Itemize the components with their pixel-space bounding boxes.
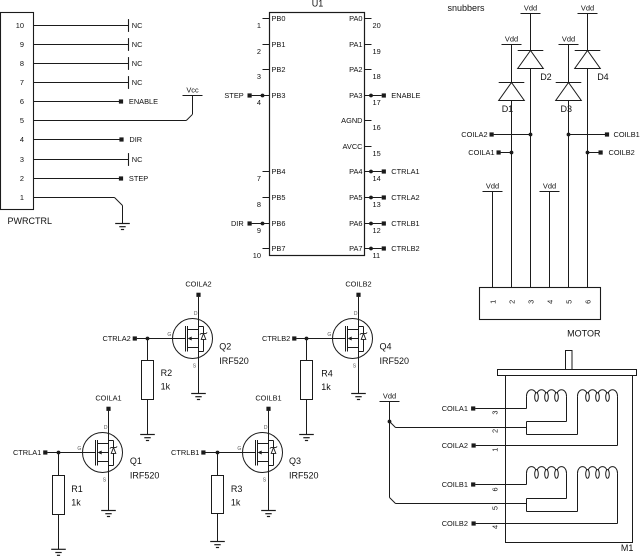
U1 pin 10 (PB7): [263, 248, 270, 250]
svg-text:COILB1: COILB1: [255, 393, 281, 402]
svg-text:9: 9: [20, 40, 24, 49]
svg-text:CTRLA1: CTRLA1: [13, 448, 41, 457]
U1 pin 15 (AVCC): [365, 146, 372, 148]
svg-text:10: 10: [253, 251, 261, 260]
svg-text:11: 11: [373, 251, 381, 260]
svg-text:COILA1: COILA1: [442, 404, 468, 413]
svg-text:Vdd: Vdd: [524, 4, 537, 13]
svg-text:8: 8: [257, 200, 261, 209]
U1 pin 4 (PB3): [263, 95, 270, 97]
U1 pin 18 (PA2): [365, 69, 372, 71]
svg-text:18: 18: [373, 72, 381, 81]
svg-text:COILB2: COILB2: [345, 279, 371, 288]
U1 pin 19 (PA1): [365, 44, 372, 46]
wire pin 6 to ENABLE: [34, 101, 120, 103]
svg-text:20: 20: [373, 21, 381, 30]
wire CTRLB1 to gate of Q3: [205, 452, 255, 454]
wire D3 anode to motor pin 5: [568, 101, 570, 288]
svg-text:PB0: PB0: [272, 14, 286, 23]
node ENABLE flag: [119, 99, 123, 103]
svg-text:1: 1: [20, 193, 24, 202]
inductor coil B second half: [577, 473, 579, 511]
transistor Q3: [237, 425, 282, 483]
svg-text:COILB2: COILB2: [609, 148, 635, 157]
svg-text:PA5: PA5: [349, 193, 362, 202]
svg-text:15: 15: [373, 149, 381, 158]
ground at source of Q2: [191, 393, 206, 395]
NC flag pin 7: [128, 76, 130, 89]
U1 pin 7 (PB4): [263, 171, 270, 173]
svg-text:3: 3: [257, 72, 261, 81]
svg-text:1: 1: [489, 300, 498, 304]
svg-text:ENABLE: ENABLE: [129, 97, 158, 106]
wire COILA2 to D2 column: [494, 134, 531, 136]
U1 pin 11 (PA7): [365, 248, 372, 250]
resistor R2: [147, 339, 149, 361]
ground at PWRCTRL pin 1: [115, 223, 130, 225]
wire COILA1 into motor: [475, 408, 526, 410]
svg-text:COILA1: COILA1: [468, 148, 494, 157]
wire D4 anode to motor pin 6: [587, 69, 589, 288]
svg-text:R4: R4: [321, 369, 333, 379]
wire COILA2 to drain of Q2: [198, 297, 200, 330]
node STEP flag: [119, 176, 123, 180]
svg-text:R3: R3: [231, 484, 243, 494]
svg-text:AGND: AGND: [341, 116, 362, 125]
NC flag pin 3: [128, 153, 130, 166]
svg-text:M1: M1: [621, 543, 634, 553]
svg-text:5: 5: [565, 300, 574, 304]
wire pin 7 to NC: [34, 82, 129, 84]
junction at CTRLB2 / R top: [305, 337, 309, 341]
wire coil B2 to COILB2: [617, 473, 619, 523]
inductor coil A first half: [526, 396, 528, 408]
NC flag pin 9: [128, 38, 130, 51]
svg-text:3: 3: [527, 300, 536, 304]
connector PWRCTRL box: [1, 13, 34, 210]
svg-text:PA6: PA6: [349, 219, 362, 228]
svg-text:CTRLB2: CTRLB2: [262, 334, 290, 343]
svg-text:Vdd: Vdd: [543, 182, 556, 191]
svg-text:DIR: DIR: [129, 135, 142, 144]
svg-text:Vdd: Vdd: [581, 4, 594, 13]
supply Vcc: [183, 95, 203, 97]
svg-text:ENABLE: ENABLE: [391, 91, 420, 100]
svg-text:snubbers: snubbers: [448, 3, 486, 13]
svg-text:PB3: PB3: [272, 91, 286, 100]
svg-text:4: 4: [490, 525, 499, 529]
transistor Q4: [327, 311, 372, 369]
op-amp U1 body: [270, 13, 365, 256]
svg-text:NC: NC: [132, 21, 143, 30]
svg-text:Q2: Q2: [219, 342, 231, 352]
svg-text:5: 5: [490, 506, 499, 510]
svg-text:CTRLA2: CTRLA2: [391, 193, 419, 202]
node CTRLB2 at U1: [369, 247, 373, 251]
wire pin 2 to STEP: [34, 178, 120, 180]
wire Vdd to winding A center tap: [390, 422, 396, 428]
svg-text:Q1: Q1: [130, 456, 142, 466]
svg-text:CTRLA2: CTRLA2: [102, 334, 130, 343]
connector MOTOR box: [480, 288, 601, 320]
svg-text:19: 19: [373, 47, 381, 56]
resistor R1: [58, 453, 60, 476]
U1 pin 3 (PB2): [263, 69, 270, 71]
supply Vdd to motor pin 1: [483, 191, 503, 193]
svg-text:D2: D2: [540, 72, 552, 82]
svg-text:D4: D4: [597, 72, 609, 82]
resistor R3: [217, 453, 219, 476]
transistor Q2: [167, 311, 212, 369]
U1 pin 12 (PA6): [365, 223, 372, 225]
svg-text:Vdd: Vdd: [486, 182, 499, 191]
junction at CTRLB1 / R top: [216, 451, 220, 455]
U1 pin 20 (PA0): [365, 18, 372, 20]
svg-text:IRF520: IRF520: [289, 471, 319, 481]
svg-text:PA0: PA0: [349, 14, 362, 23]
svg-text:DIR: DIR: [231, 219, 244, 228]
wire COILB1 from D3 column: [569, 134, 606, 136]
motor M1 flange: [498, 370, 637, 376]
ground at source of Q3: [261, 510, 276, 512]
wire pin 10 to NC: [34, 25, 129, 27]
node COILB2 flag at motor: [472, 521, 476, 525]
wire CTRLB2 to gate of Q4: [296, 338, 345, 340]
node COILB2 flag at snubbers: [586, 151, 590, 155]
svg-text:1k: 1k: [71, 498, 81, 508]
wire COILB2 from D4 column: [588, 152, 599, 154]
svg-text:2: 2: [508, 300, 517, 304]
ground below R2: [140, 434, 155, 436]
wire source of Q2 to ground: [198, 359, 200, 394]
svg-text:1: 1: [257, 21, 261, 30]
svg-text:13: 13: [373, 200, 381, 209]
svg-text:PB6: PB6: [272, 219, 286, 228]
wire coil A1 to center tap: [566, 396, 568, 421]
U1 pin 9 (PB6): [263, 223, 270, 225]
svg-text:AVCC: AVCC: [343, 142, 364, 151]
svg-text:12: 12: [373, 226, 381, 235]
svg-text:COILA1: COILA1: [95, 393, 121, 402]
svg-text:COILB2: COILB2: [442, 519, 468, 528]
junction at CTRLA2 / R top: [146, 337, 150, 341]
svg-text:2: 2: [20, 174, 24, 183]
node DIR flag: [119, 137, 123, 141]
junction at CTRLA1 / R top: [57, 451, 61, 455]
svg-text:17: 17: [373, 98, 381, 107]
svg-text:Vdd: Vdd: [505, 35, 518, 44]
node CTRLA1 at U1: [369, 170, 373, 174]
svg-text:6: 6: [20, 97, 24, 106]
U1 pin 14 (PA4): [365, 171, 372, 173]
svg-text:Vdd: Vdd: [562, 35, 575, 44]
wire D2 anode to motor pin 3: [530, 69, 532, 288]
svg-text:COILA2: COILA2: [461, 130, 487, 139]
wire COILA1 to drain of Q1: [108, 411, 110, 444]
svg-text:CTRLA1: CTRLA1: [391, 167, 419, 176]
svg-text:6: 6: [584, 300, 593, 304]
wire pin 9 to NC: [34, 44, 129, 46]
svg-text:4: 4: [20, 135, 24, 144]
svg-text:14: 14: [373, 174, 381, 183]
U1 pin 16 (AGND): [365, 120, 372, 122]
wire pin 3 to NC: [34, 159, 129, 161]
wire Vdd to winding B center tap: [389, 422, 391, 498]
svg-text:Vcc: Vcc: [186, 86, 199, 95]
node COILA2 flag at motor: [472, 443, 476, 447]
wire pin 5 to Vcc: [34, 120, 187, 122]
wire COILB2 to drain of Q4: [358, 297, 360, 330]
svg-text:9: 9: [257, 226, 261, 235]
U1 pin 8 (PB5): [263, 197, 270, 199]
svg-text:PB7: PB7: [272, 244, 286, 253]
svg-text:STEP: STEP: [129, 174, 148, 183]
svg-text:16: 16: [373, 123, 381, 132]
svg-text:PA2: PA2: [349, 65, 362, 74]
wire pin 4 to DIR: [34, 139, 120, 141]
inductor coil A second half: [577, 396, 579, 434]
transistor Q1: [77, 425, 122, 483]
svg-text:2: 2: [490, 429, 499, 433]
svg-text:1k: 1k: [161, 382, 171, 392]
ground at source of Q4: [351, 393, 366, 395]
wire coil B1 to center tap: [566, 473, 568, 498]
supply Vdd above D1: [502, 44, 522, 46]
svg-text:7: 7: [257, 174, 261, 183]
ground at source of Q1: [101, 510, 116, 512]
wire CTRLA2 to gate of Q2: [137, 338, 186, 340]
wire D1 anode to motor pin 2: [511, 101, 513, 288]
svg-text:NC: NC: [132, 40, 143, 49]
svg-text:R1: R1: [71, 484, 83, 494]
svg-text:2: 2: [257, 47, 261, 56]
svg-text:10: 10: [16, 21, 24, 30]
svg-text:CTRLB2: CTRLB2: [391, 244, 419, 253]
svg-text:7: 7: [20, 78, 24, 87]
wire COILA1 to D1 column: [501, 152, 512, 154]
supply Vdd above D4: [578, 13, 598, 15]
node CTRLA2 at U1: [369, 196, 373, 200]
svg-text:Vdd: Vdd: [383, 392, 396, 401]
junction Vdd split: [388, 420, 392, 424]
svg-text:PA1: PA1: [349, 40, 362, 49]
U1 pin 17 (PA3): [365, 95, 372, 97]
svg-text:Q4: Q4: [380, 342, 392, 352]
svg-text:U1: U1: [312, 0, 324, 9]
svg-text:COILA2: COILA2: [185, 279, 211, 288]
svg-text:6: 6: [490, 487, 499, 491]
svg-text:COILB1: COILB1: [442, 480, 468, 489]
diode D3: [568, 45, 570, 83]
node ENABLE at U1: [369, 94, 373, 98]
supply Vdd above D2: [521, 13, 541, 15]
ground below R4: [299, 434, 314, 436]
motor M1 shaft: [566, 351, 573, 370]
diode D1: [511, 45, 513, 83]
svg-text:R2: R2: [161, 368, 173, 378]
svg-text:PWRCTRL: PWRCTRL: [8, 216, 53, 226]
ground below R3: [210, 541, 225, 543]
svg-text:PB5: PB5: [272, 193, 286, 202]
wire COILB1 into motor: [475, 484, 526, 486]
wire pin 1 to ground: [34, 197, 115, 199]
svg-text:4: 4: [546, 300, 555, 304]
inductor coil B first half: [526, 473, 528, 484]
diode D2: [530, 14, 532, 51]
svg-text:PA7: PA7: [349, 244, 362, 253]
supply Vdd to motor pin 4: [540, 191, 560, 193]
svg-text:PA4: PA4: [349, 167, 362, 176]
U1 pin 1 (PB0): [263, 18, 270, 20]
svg-text:CTRLB1: CTRLB1: [391, 219, 419, 228]
wire source of Q3 to ground: [268, 473, 270, 511]
wire COILB1 to drain of Q3: [268, 411, 270, 444]
NC flag pin 10: [128, 19, 130, 32]
svg-text:STEP: STEP: [224, 91, 243, 100]
diode D4: [587, 14, 589, 51]
svg-text:MOTOR: MOTOR: [567, 329, 601, 339]
svg-text:IRF520: IRF520: [130, 471, 160, 481]
svg-text:COILB1: COILB1: [614, 130, 640, 139]
NC flag pin 8: [128, 57, 130, 70]
svg-text:NC: NC: [132, 59, 143, 68]
ground below R1: [51, 548, 66, 550]
node CTRLB1 at U1: [369, 222, 373, 226]
svg-text:PB2: PB2: [272, 65, 286, 74]
wire source of Q1 to ground: [108, 473, 110, 511]
svg-text:3: 3: [490, 411, 499, 415]
U1 pin 13 (PA5): [365, 197, 372, 199]
motor M1 body: [506, 376, 633, 543]
svg-text:PB1: PB1: [272, 40, 286, 49]
wire source of Q4 to ground: [358, 359, 360, 394]
svg-text:IRF520: IRF520: [380, 356, 410, 366]
svg-text:3: 3: [20, 155, 24, 164]
svg-text:PB4: PB4: [272, 167, 286, 176]
svg-text:1k: 1k: [321, 382, 331, 392]
svg-text:1: 1: [490, 448, 499, 452]
svg-text:D3: D3: [561, 104, 573, 114]
resistor R4: [306, 339, 308, 361]
svg-text:Q3: Q3: [289, 456, 301, 466]
svg-text:CTRLB1: CTRLB1: [171, 448, 199, 457]
wire pin 8 to NC: [34, 63, 129, 65]
svg-text:IRF520: IRF520: [219, 356, 249, 366]
supply Vdd for motor M1: [380, 401, 400, 403]
svg-text:8: 8: [20, 59, 24, 68]
svg-text:1k: 1k: [231, 498, 241, 508]
svg-text:PA3: PA3: [349, 91, 362, 100]
node COILB1 flag at snubbers: [567, 133, 571, 137]
wire coil A2 to COILA2: [617, 396, 619, 445]
U1 pin 2 (PB1): [263, 44, 270, 46]
svg-text:NC: NC: [132, 155, 143, 164]
svg-text:5: 5: [20, 116, 24, 125]
svg-text:NC: NC: [132, 78, 143, 87]
svg-text:COILA2: COILA2: [442, 441, 468, 450]
wire CTRLA1 to gate of Q1: [47, 452, 95, 454]
supply Vdd above D3: [559, 44, 579, 46]
svg-text:4: 4: [257, 98, 261, 107]
